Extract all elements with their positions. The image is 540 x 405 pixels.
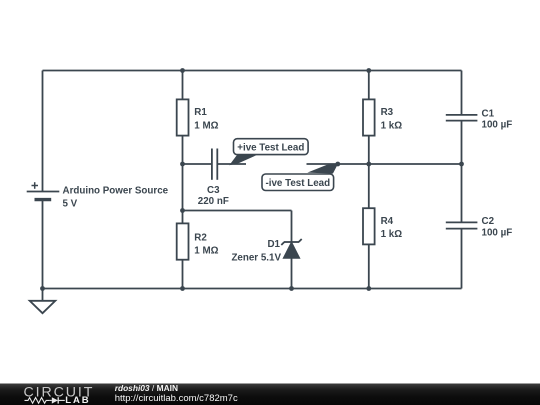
svg-text:+ive Test Lead: +ive Test Lead	[237, 142, 304, 153]
svg-text:C1: C1	[482, 109, 495, 120]
junction -ive probe node	[335, 162, 340, 167]
footer bar	[0, 384, 540, 405]
svg-text:LAB: LAB	[65, 395, 90, 405]
wire top rail	[43, 70, 462, 72]
svg-text:C3: C3	[207, 185, 220, 196]
wire right rail upper	[461, 71, 463, 115]
svg-text:R3: R3	[381, 107, 394, 118]
svg-text:rdoshi03 / MAIN: rdoshi03 / MAIN	[115, 383, 178, 393]
wire R4 top	[368, 164, 370, 208]
wire right rail lower	[461, 229, 463, 289]
node +ive Test Lead callout	[234, 139, 309, 155]
wire lower horizontal to D1	[183, 210, 292, 212]
node -ive Test Lead flag	[307, 163, 338, 173]
junction top R1	[180, 68, 185, 73]
capacitor C2	[446, 222, 478, 228]
junction bottom R4	[366, 286, 371, 291]
resistor R2	[177, 223, 189, 259]
wire left rail lower	[42, 200, 44, 289]
svg-text:Zener 5.1V: Zener 5.1V	[231, 252, 281, 263]
wire D1 top	[291, 211, 293, 243]
junction bottom ground	[40, 286, 45, 291]
svg-text:1 kΩ: 1 kΩ	[381, 229, 403, 240]
junction node A	[180, 162, 185, 167]
svg-text:220 nF: 220 nF	[198, 196, 229, 207]
svg-text:D1: D1	[267, 239, 280, 250]
diode D1 zener	[281, 239, 301, 258]
svg-text:R2: R2	[194, 233, 207, 244]
wire R3 bottom	[368, 136, 370, 164]
junction mid R3 R4	[366, 162, 371, 167]
wire R2 bottom	[182, 260, 184, 289]
wire R1 bottom	[182, 136, 184, 164]
junction top R3	[366, 68, 371, 73]
wire C3 right (+ive probe stub)	[217, 163, 246, 165]
svg-text:Arduino Power Source: Arduino Power Source	[63, 186, 169, 197]
capacitor C3	[212, 149, 217, 180]
svg-text:1 MΩ: 1 MΩ	[194, 246, 218, 257]
wire bottom rail	[43, 288, 462, 290]
wire R3 top	[368, 71, 370, 100]
svg-text:R1: R1	[194, 107, 207, 118]
ground	[30, 289, 56, 314]
logo resistor zigzag	[25, 398, 50, 404]
svg-text:1 MΩ: 1 MΩ	[194, 120, 218, 131]
wire D1 bottom	[291, 258, 293, 289]
svg-text:R4: R4	[381, 216, 394, 227]
wire middle rail right	[338, 163, 462, 165]
junction bottom R2	[180, 286, 185, 291]
svg-text:-ive Test Lead: -ive Test Lead	[265, 178, 330, 189]
wire C3 left	[183, 163, 212, 165]
wire R1 top	[182, 71, 184, 100]
svg-text:5 V: 5 V	[63, 199, 78, 210]
wire node A down	[182, 164, 184, 211]
svg-text:100 µF: 100 µF	[482, 227, 513, 238]
wire -ive probe stub	[307, 163, 338, 165]
resistor R3	[363, 99, 375, 135]
svg-text:C2: C2	[482, 216, 495, 227]
junction node B	[180, 208, 185, 213]
logo diode symbol	[50, 397, 65, 403]
node +ive Test Lead flag	[229, 154, 256, 165]
junction mid right rail	[459, 162, 464, 167]
battery V1 Arduino Power Source	[27, 182, 60, 199]
wire R4 bottom	[368, 244, 370, 288]
wire left rail upper	[42, 71, 44, 192]
svg-text:100 µF: 100 µF	[482, 120, 513, 131]
svg-text:http://circuitlab.com/c782m7c: http://circuitlab.com/c782m7c	[115, 393, 238, 404]
resistor R1	[177, 99, 189, 135]
junction bottom D1	[289, 286, 294, 291]
wire R2 top	[182, 211, 184, 224]
wire right rail middle	[461, 121, 463, 223]
resistor R4	[363, 208, 375, 244]
svg-text:1 kΩ: 1 kΩ	[381, 120, 403, 131]
capacitor C1	[446, 115, 478, 121]
node -ive Test Lead callout	[262, 174, 334, 191]
